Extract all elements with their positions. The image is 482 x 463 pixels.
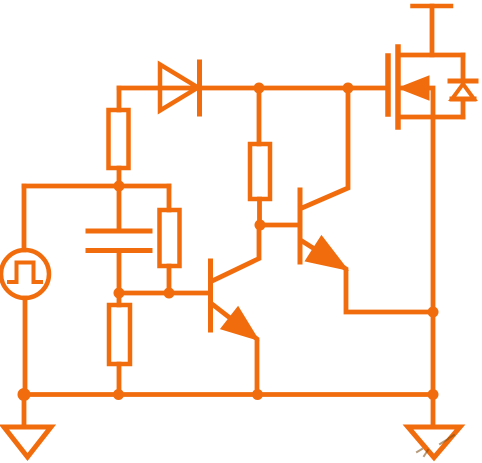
wire base rail y=293	[119, 291, 210, 296]
resistor R1	[109, 88, 129, 186]
body diode D2	[450, 55, 476, 117]
node junction R2 bottom / Q2 base / Q1 collector	[255, 220, 266, 231]
wire Q2 base	[260, 223, 300, 228]
node junction right column / Q2 emitter	[428, 307, 439, 318]
node junction bottom rail / right column	[428, 389, 439, 400]
transistor Q1	[211, 225, 260, 395]
MOSFET M1	[388, 47, 463, 127]
pulse source V1	[1, 186, 49, 395]
node junction bottom rail / V1	[18, 388, 31, 401]
wire mid rail y=186	[24, 184, 169, 189]
ground left	[4, 395, 51, 458]
diode D1	[160, 62, 200, 114]
transistor Q2	[300, 88, 433, 312]
node junction mid rail / R1 bottom	[114, 181, 125, 192]
resistor R4	[109, 293, 130, 395]
resistor R2	[250, 88, 270, 225]
node junction top rail / Q2 collector	[343, 83, 354, 94]
ground right	[408, 395, 460, 458]
node junction bottom rail / Q1 emitter	[252, 389, 263, 400]
wire right column	[431, 117, 436, 395]
wire bottom rail y=394.5	[24, 392, 433, 397]
wire top rail y=88 from R1 corner to MOSFET gate	[119, 86, 387, 91]
node junction bottom rail / R4 bottom	[113, 389, 124, 400]
power rail VCC	[413, 6, 452, 55]
node junction C1 bottom / R4 top / base rail	[114, 288, 125, 299]
capacitor C1	[88, 186, 150, 293]
node junction top rail / R2	[254, 83, 265, 94]
resistor R3	[160, 186, 180, 293]
node junction R3 bottom / base rail	[164, 288, 175, 299]
